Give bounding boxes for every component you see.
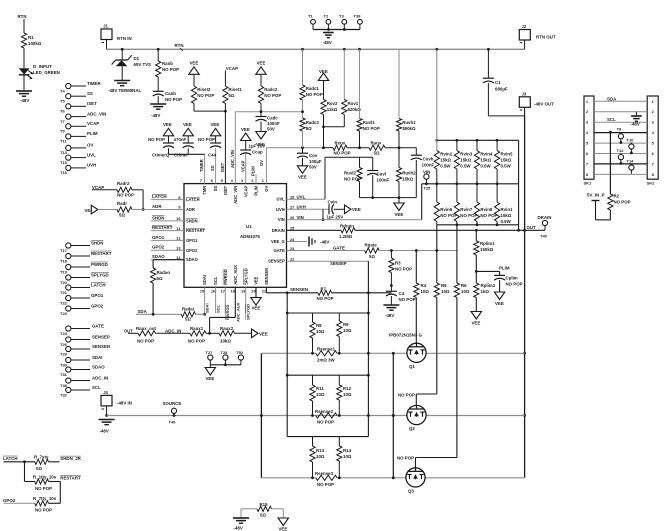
wire grid bottom bus	[437, 223, 519, 226]
node OUT	[124, 329, 133, 334]
svg-text:Ccap: Ccap	[252, 150, 263, 155]
svg-text:-48V: -48V	[151, 113, 160, 118]
wire OV	[259, 148, 266, 184]
wire	[105, 406, 108, 417]
wire sense rail right	[367, 293, 370, 437]
svg-text:T8: T8	[617, 127, 622, 132]
svg-text:SHDN_JR: SHDN_JR	[60, 456, 81, 461]
net VIN label	[297, 215, 304, 220]
svg-text:Ruvl2: Ruvl2	[344, 171, 357, 176]
svg-text:100nF: 100nF	[377, 178, 390, 183]
pin VEE_G to -48V	[287, 237, 330, 247]
pin 8 LATCH stub	[151, 195, 200, 202]
ground -48V	[631, 112, 642, 127]
power VEE	[256, 132, 266, 148]
svg-text:17: 17	[221, 289, 225, 294]
node VCAP	[92, 185, 104, 190]
svg-text:11kΩ: 11kΩ	[327, 107, 338, 112]
svg-text:Rxuv: Rxuv	[335, 141, 346, 146]
terminal T49 SOURCE	[163, 401, 182, 425]
resistor R_7tty_10s	[33, 496, 57, 512]
terminal T31 SDAO	[60, 364, 105, 377]
wire SK pin 7	[586, 161, 654, 166]
svg-text:10Ω: 10Ω	[461, 289, 470, 294]
svg-text:T18: T18	[60, 258, 68, 263]
terminal T17 SHDN	[60, 240, 103, 253]
terminal T48 ADC_IN	[60, 375, 108, 388]
resistor Rvin2	[434, 151, 453, 184]
wire	[398, 131, 400, 148]
wire ISET	[220, 103, 227, 183]
terminal T27	[206, 350, 214, 365]
pin 17 PWRGD	[221, 269, 228, 293]
svg-text:Cadc: Cadc	[267, 116, 278, 121]
wire cell3 rail	[287, 436, 368, 438]
svg-text:Rvin4: Rvin4	[480, 152, 493, 157]
svg-text:-48V: -48V	[20, 98, 29, 103]
capacitor Cuvh	[411, 148, 435, 168]
wire ADC_AUX route	[210, 287, 236, 333]
wire TMR	[199, 154, 204, 183]
terminal T12	[617, 148, 625, 165]
wire	[475, 255, 478, 283]
wire	[398, 182, 400, 198]
resistor Rplim1	[474, 230, 495, 255]
svg-text:Rvin5: Rvin5	[501, 152, 514, 157]
wire SK pin 4	[586, 130, 655, 135]
wire	[25, 462, 35, 482]
capacitor C44	[198, 136, 221, 158]
wire Q3 rail	[261, 476, 315, 479]
svg-text:10Ω: 10Ω	[343, 392, 352, 397]
svg-text:Radc1: Radc1	[306, 86, 320, 91]
svg-text:Cov: Cov	[309, 153, 318, 158]
resistor R8	[310, 313, 325, 353]
resistor R1	[21, 33, 41, 48]
svg-text:GPO2: GPO2	[3, 498, 16, 503]
svg-text:100kΩ: 100kΩ	[28, 41, 42, 46]
wire UV bottom rail	[360, 196, 417, 199]
svg-text:LATCH: LATCH	[91, 282, 106, 287]
svg-text:UVH: UVH	[87, 163, 96, 168]
svg-text:PLIM: PLIM	[254, 185, 259, 195]
node VCAP	[226, 66, 238, 71]
svg-text:Rvin6: Rvin6	[440, 207, 453, 212]
resistor Ruvl1	[357, 49, 380, 131]
wire	[260, 122, 262, 132]
wire	[4, 502, 35, 504]
svg-text:NO POP: NO POP	[334, 151, 351, 156]
svg-text:SENSEP: SENSEP	[92, 334, 110, 339]
terminal T21 LATCH	[60, 282, 106, 295]
power VEE	[345, 205, 361, 214]
svg-text:VCAP: VCAP	[87, 121, 99, 126]
wire	[313, 28, 360, 31]
wire PLIM	[251, 166, 256, 184]
svg-text:NO POP: NO POP	[506, 282, 523, 287]
svg-text:LATCH: LATCH	[3, 456, 18, 461]
node OUT	[527, 225, 537, 230]
svg-text:D1: D1	[134, 56, 140, 61]
diode D1 65V TVS	[112, 49, 152, 80]
resistor Rauv	[369, 141, 385, 156]
power VEE pin20	[251, 287, 261, 310]
svg-text:GATE: GATE	[274, 248, 285, 253]
terminal T2	[324, 14, 331, 30]
svg-text:NO POP: NO POP	[397, 456, 414, 461]
capacitor Cadc	[256, 116, 281, 132]
svg-text:SENSEP: SENSEP	[330, 261, 347, 266]
wire	[59, 482, 61, 504]
svg-text:Rvin3: Rvin3	[460, 152, 473, 157]
wire SK pin 3	[586, 120, 655, 125]
svg-text:NO POP: NO POP	[148, 137, 165, 142]
svg-text:Cuvl: Cuvl	[377, 172, 387, 177]
wire	[359, 131, 361, 148]
terminal T8	[617, 127, 624, 144]
svg-text:100nF: 100nF	[422, 163, 435, 168]
power VEE	[252, 329, 268, 338]
svg-text:Q2: Q2	[409, 426, 415, 431]
svg-text:T17: T17	[60, 248, 68, 253]
wire	[337, 352, 524, 355]
power VEE	[471, 312, 481, 326]
pin 23 GATE	[274, 246, 296, 253]
svg-text:NO POP: NO POP	[363, 126, 380, 131]
svg-text:0.5W: 0.5W	[440, 164, 451, 169]
resistor Rplim2	[474, 283, 496, 298]
svg-text:UVL: UVL	[87, 152, 96, 157]
wire	[334, 208, 345, 210]
svg-text:T6: T6	[60, 109, 65, 114]
resistor Radr	[117, 201, 132, 218]
wire	[260, 103, 262, 116]
svg-text:Radao: Radao	[157, 270, 171, 275]
pin 19 SPLYGD	[241, 268, 248, 293]
power VEE	[189, 61, 199, 75]
resistor Rvin6	[434, 184, 457, 225]
svg-text:Ruvh1: Ruvh1	[402, 120, 416, 125]
wire SOURCE line	[107, 414, 525, 417]
wire	[272, 509, 284, 518]
terminal T28	[221, 350, 229, 365]
svg-text:PWRGD: PWRGD	[91, 262, 108, 267]
svg-text:SPLYGD: SPLYGD	[243, 268, 248, 285]
wire	[196, 313, 205, 315]
node VIN	[423, 169, 430, 174]
resistor R_7sty	[34, 455, 49, 471]
ground -48V TERMINAL	[108, 81, 141, 94]
svg-text:Radc2: Radc2	[264, 87, 278, 92]
pin 3 VCAP	[241, 178, 248, 197]
svg-text:VEE: VEE	[472, 321, 481, 326]
svg-text:SDAI: SDAI	[92, 355, 103, 360]
resistor R14	[337, 437, 352, 478]
resistor R7	[317, 287, 334, 302]
svg-text:10kΩ: 10kΩ	[220, 339, 231, 344]
capacitor C4	[386, 291, 416, 302]
svg-text:5Ω: 5Ω	[157, 276, 163, 281]
svg-text:ADC_VIN: ADC_VIN	[230, 150, 235, 168]
svg-text:ADC_IN: ADC_IN	[92, 375, 108, 380]
net SDAO label	[152, 254, 165, 259]
wire	[488, 83, 524, 116]
terminal T10	[627, 137, 635, 154]
net RESTART label	[152, 225, 173, 230]
svg-text:50V: 50V	[309, 165, 317, 170]
svg-text:Rov1: Rov1	[348, 101, 359, 106]
svg-text:R_7sty: R_7sty	[34, 455, 49, 460]
svg-text:GPO2: GPO2	[91, 303, 104, 308]
wire	[157, 96, 159, 104]
svg-text:T3: T3	[339, 14, 344, 19]
svg-text:Radai: Radai	[182, 307, 194, 312]
wire	[343, 115, 345, 127]
net SDAI label	[204, 303, 209, 313]
svg-text:VEE: VEE	[163, 122, 172, 127]
power VEE	[205, 365, 215, 381]
svg-text:T9: T9	[60, 129, 65, 134]
svg-text:65V TVS: 65V TVS	[134, 62, 152, 67]
wire	[415, 298, 417, 344]
power VEE	[394, 198, 404, 217]
svg-text:Cplim: Cplim	[506, 276, 518, 281]
resistor R2	[608, 194, 631, 211]
svg-text:UVL: UVL	[277, 197, 286, 202]
pin 25 DRAIN	[272, 226, 295, 233]
resistor Rov2	[321, 81, 338, 115]
wire -48V rail	[523, 107, 526, 478]
svg-text:RESTART: RESTART	[152, 225, 173, 230]
capacitor Canb	[153, 91, 182, 102]
svg-text:ADC_VIN: ADC_VIN	[87, 111, 106, 116]
net GPO2 label	[152, 245, 165, 250]
svg-text:Rsense2: Rsense2	[315, 409, 334, 414]
svg-text:R14: R14	[343, 448, 352, 453]
connector J1	[101, 24, 132, 43]
svg-text:SS: SS	[210, 165, 215, 171]
svg-text:ADR: ADR	[186, 207, 195, 212]
terminal T5 SS	[60, 91, 93, 104]
pin 10 SHDN stub	[151, 216, 198, 223]
connector SK1 body	[584, 96, 595, 186]
svg-text:RESTART: RESTART	[91, 251, 112, 256]
svg-text:T20: T20	[60, 280, 68, 285]
wire	[332, 291, 392, 294]
svg-text:1µF 25V: 1µF 25V	[327, 214, 344, 219]
resistor Rvin4	[474, 140, 493, 184]
terminal T22 GPO1	[60, 293, 104, 306]
svg-text:NO POP: NO POP	[317, 296, 334, 301]
power VEE	[256, 61, 266, 75]
svg-text:SENSEN: SENSEN	[264, 268, 269, 285]
wire OUT	[355, 229, 545, 232]
svg-text:Q3: Q3	[408, 489, 414, 494]
wire	[153, 260, 184, 268]
connector J3	[519, 91, 554, 110]
wire SK pin 1	[586, 99, 655, 104]
svg-text:T5: T5	[60, 99, 65, 104]
svg-text:-48V: -48V	[100, 429, 109, 434]
svg-text:R15: R15	[260, 502, 269, 507]
wire	[416, 298, 437, 406]
svg-text:VCAP: VCAP	[92, 185, 104, 190]
svg-text:SPLYGD: SPLYGD	[91, 272, 109, 277]
svg-text:0.5W: 0.5W	[501, 219, 512, 224]
svg-text:-48V: -48V	[385, 313, 394, 318]
svg-text:SENSEP: SENSEP	[268, 259, 285, 264]
svg-text:15kΩ: 15kΩ	[480, 158, 491, 163]
net RESTART label	[60, 475, 81, 480]
svg-text:T23: T23	[60, 311, 68, 316]
svg-text:R4: R4	[421, 283, 427, 288]
svg-text:T14: T14	[627, 158, 635, 163]
svg-text:U1: U1	[246, 224, 252, 229]
wire SENSEN	[266, 287, 318, 294]
svg-text:10: 10	[176, 216, 180, 221]
svg-text:Canb: Canb	[165, 91, 176, 96]
svg-text:SDA: SDA	[138, 309, 148, 314]
wire	[106, 40, 108, 50]
svg-text:T11: T11	[60, 139, 67, 144]
svg-text:680µF: 680µF	[495, 87, 508, 92]
terminal T30 SDAI	[60, 355, 103, 368]
wire SS	[210, 148, 215, 183]
resistor Raux2	[219, 326, 235, 344]
wire	[390, 296, 392, 305]
svg-text:LATCH: LATCH	[186, 197, 200, 202]
wire SENSEP	[287, 261, 369, 293]
svg-text:-48V TERMINAL: -48V TERMINAL	[108, 88, 141, 93]
wire timer cap bus	[169, 153, 205, 155]
svg-text:SS: SS	[87, 91, 93, 96]
svg-text:Rvin1: Rvin1	[501, 207, 514, 212]
svg-text:15kΩ: 15kΩ	[501, 158, 512, 163]
svg-text:J4: J4	[103, 390, 108, 395]
wire SPLYGD pin	[245, 287, 247, 313]
ground -48V	[323, 33, 334, 46]
wire SK pin 6	[586, 151, 655, 156]
svg-text:VCAP: VCAP	[240, 160, 245, 172]
svg-text:R6: R6	[461, 283, 467, 288]
wire	[235, 332, 252, 334]
wire	[266, 146, 325, 149]
svg-text:NO POP: NO POP	[344, 177, 361, 182]
wire	[416, 298, 457, 469]
resistor Rdrain	[339, 223, 355, 239]
svg-text:UVH: UVH	[276, 207, 285, 212]
pin 4 ADC_VIN	[231, 178, 238, 204]
svg-text:TIMER: TIMER	[87, 81, 101, 86]
svg-text:Rsense1: Rsense1	[317, 347, 336, 352]
node 5V_IN_P	[587, 193, 605, 201]
svg-text:NO POP: NO POP	[398, 393, 415, 398]
svg-text:TIMER: TIMER	[199, 159, 204, 172]
svg-text:T30: T30	[60, 362, 68, 367]
resistor Riset1	[223, 86, 242, 103]
svg-text:R5: R5	[441, 283, 447, 288]
svg-text:R2: R2	[614, 194, 620, 199]
svg-text:PWRGD: PWRGD	[225, 305, 230, 320]
svg-text:Raux2: Raux2	[220, 326, 234, 331]
svg-text:5Ω: 5Ω	[185, 317, 191, 322]
svg-text:T24: T24	[60, 331, 68, 336]
wire UVH	[287, 208, 330, 210]
svg-text:VEE: VEE	[241, 127, 250, 132]
terminal T16 UVH	[60, 163, 96, 176]
wire UVL	[287, 157, 373, 199]
svg-text:VEE: VEE	[257, 61, 266, 66]
ground -48V	[233, 518, 249, 531]
svg-text:R1: R1	[28, 35, 34, 40]
wire grid right edge	[518, 140, 520, 230]
svg-text:SS: SS	[213, 186, 218, 192]
resistor Rsense3	[315, 471, 337, 487]
svg-text:5V_IN_P: 5V_IN_P	[587, 193, 605, 198]
svg-text:Ranb: Ranb	[162, 61, 173, 66]
svg-text:NO POP: NO POP	[137, 339, 154, 344]
svg-text:SCL: SCL	[215, 304, 220, 313]
resistor Raux_out	[136, 326, 157, 344]
wire	[524, 40, 526, 49]
svg-text:J2: J2	[522, 24, 527, 29]
svg-text:VIN: VIN	[278, 217, 285, 222]
svg-text:DRAIN: DRAIN	[538, 215, 552, 220]
svg-text:GPO2: GPO2	[186, 248, 198, 253]
wire VCAP	[240, 153, 245, 183]
svg-text:LATCH: LATCH	[152, 194, 167, 199]
transistor Q1 IPB072N15N3 G	[389, 333, 426, 370]
svg-text:SK1: SK1	[584, 181, 593, 186]
svg-text:VEE: VEE	[211, 122, 220, 127]
svg-text:Rvin7: Rvin7	[460, 207, 473, 212]
svg-text:RTN: RTN	[175, 43, 184, 48]
wire	[210, 363, 241, 366]
terminal T24 GATE	[60, 323, 104, 336]
svg-text:SDAI: SDAI	[204, 303, 209, 313]
svg-text:NO POP: NO POP	[399, 297, 416, 302]
wire grid top bus	[435, 139, 518, 142]
op-amp U1 ADM1075 body	[184, 184, 287, 288]
wire 5V_IN_P rail	[609, 131, 612, 194]
wire	[49, 481, 61, 483]
svg-text:T28: T28	[221, 350, 229, 355]
resistor Rvin5	[495, 140, 514, 184]
svg-text:SPLYGD: SPLYGD	[245, 304, 250, 320]
wire	[322, 209, 325, 221]
svg-text:T2: T2	[324, 14, 329, 19]
svg-text:ISET: ISET	[223, 185, 228, 195]
svg-text:ADM1075: ADM1075	[240, 234, 260, 239]
terminal T9 VCAP	[60, 121, 99, 134]
svg-text:OV: OV	[87, 143, 93, 148]
connector J4	[101, 390, 132, 409]
terminal T29 SENSEN	[60, 344, 110, 357]
svg-text:PLIM: PLIM	[251, 166, 256, 176]
svg-text:100µF: 100µF	[309, 159, 322, 164]
svg-text:Q1: Q1	[409, 364, 415, 369]
svg-text:10Ω: 10Ω	[343, 328, 352, 333]
svg-text:GATE: GATE	[333, 246, 345, 251]
wire	[128, 332, 138, 334]
pin 5 ISET	[221, 178, 228, 195]
resistor R9	[337, 313, 352, 353]
wire	[241, 509, 257, 518]
power VEE	[183, 122, 193, 136]
pin 11 RESTART stub	[151, 226, 206, 233]
svg-text:470nF: 470nF	[174, 137, 187, 142]
resistor Rvin8	[474, 184, 497, 225]
